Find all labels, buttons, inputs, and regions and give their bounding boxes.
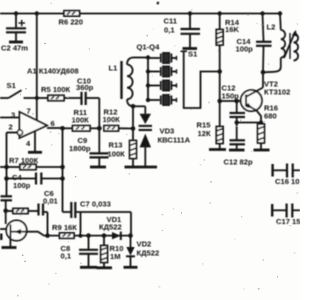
resistor R7	[7, 156, 63, 170]
ground bar of C8	[80, 266, 97, 269]
resistor R5	[37, 85, 81, 101]
svg-text:7: 7	[27, 107, 31, 116]
svg-text:L1: L1	[109, 64, 119, 73]
ground bar of C2	[9, 41, 23, 44]
varicap VD3 (dual)	[139, 106, 191, 166]
wire: pin 4 to ground	[34, 131, 36, 152]
node: bus right corner	[128, 233, 133, 238]
svg-text:360p: 360p	[76, 83, 94, 92]
node: rail-R14 junction	[218, 11, 222, 15]
node: C8 junction	[86, 233, 91, 238]
node: bus tap 2	[146, 69, 150, 73]
svg-text:VD3: VD3	[160, 127, 175, 136]
capacitor C16 (fragment)	[273, 164, 300, 187]
ground bar of R13/VD3	[125, 166, 158, 169]
capacitor C11	[164, 14, 201, 48]
svg-text:C12 82р: C12 82р	[224, 158, 253, 167]
svg-text:1800p: 1800p	[69, 144, 91, 153]
wire: R13 column	[132, 106, 134, 140]
wire: stub to left edge at R7 row	[0, 166, 7, 168]
capacitor C17 (fragment)	[272, 204, 301, 227]
diode VD2	[126, 236, 159, 266]
capacitor C3 (left edge, series in column)	[1, 196, 13, 210]
ground bar of R10	[97, 266, 113, 269]
node: bus top	[146, 55, 150, 59]
node: bus bottom	[146, 98, 150, 102]
node: rail-C14 junction	[260, 11, 264, 15]
node: tank bottom node	[261, 70, 266, 75]
svg-text:R7 100К: R7 100К	[9, 156, 38, 165]
node: emitter/midpoint junction	[259, 120, 263, 124]
wire: C6 down to lower bus	[47, 212, 49, 236]
wire: inverting column x6.5	[6, 133, 8, 197]
ground bar of R16	[254, 149, 270, 152]
crystal Q3	[148, 80, 177, 90]
wire: pin 2 input	[7, 132, 18, 134]
svg-text:100p: 100p	[236, 45, 254, 54]
trimmer arrow through L2/L3	[284, 30, 298, 58]
resistor R8	[6, 208, 39, 213]
wire: base feed	[220, 100, 246, 102]
capacitor C4	[7, 173, 63, 191]
resistor R9	[52, 223, 77, 238]
node: R10 junction	[102, 233, 107, 238]
transistor VT2	[241, 80, 291, 112]
core line between L2 and L3	[289, 33, 291, 59]
wire: crystal left bus	[147, 58, 149, 101]
node: C4 right junction	[60, 176, 65, 181]
inductor L3 (cut at edge)	[294, 34, 299, 61]
resistor R13	[108, 141, 137, 167]
svg-text:КТ3102: КТ3102	[264, 88, 290, 97]
switch S1 (wafer)	[181, 50, 199, 59]
svg-text:C7 0,033: C7 0,033	[80, 200, 111, 209]
capacitor C6	[39, 189, 59, 216]
pin 2 inversion bubble	[17, 130, 22, 135]
op-amp U1	[9, 107, 55, 149]
svg-text:100К: 100К	[103, 115, 121, 124]
node: R11/R12/C9 junction	[97, 126, 102, 131]
svg-text:R9 16К: R9 16К	[52, 223, 77, 232]
resistor R14	[216, 14, 239, 127]
svg-text:S1: S1	[7, 81, 17, 90]
svg-text:680: 680	[264, 112, 277, 121]
ground bar of VD2	[124, 266, 138, 269]
node: C12 divider junction	[234, 99, 239, 104]
wire: C10 to R11/R12 node	[98, 98, 100, 129]
capacitor C12 (82p, lower divider)	[224, 123, 253, 167]
svg-text:100К: 100К	[108, 150, 126, 159]
capacitor C13 (150p, upper divider)	[222, 84, 246, 123]
svg-text:R13: R13	[109, 141, 123, 150]
inductor L2	[263, 14, 285, 73]
wire: emitter drop	[257, 111, 262, 125]
svg-text:VD2: VD2	[137, 240, 152, 249]
node: R8 left junction	[3, 209, 8, 214]
ground bar of R15	[209, 148, 226, 151]
node: R7 left junction	[4, 165, 9, 170]
inductor L1	[109, 58, 134, 107]
node: divider midpoint	[235, 120, 239, 124]
svg-text:6: 6	[51, 119, 55, 128]
svg-text:R6 220: R6 220	[59, 18, 84, 27]
node: output junction	[60, 126, 65, 131]
resistor R11	[63, 108, 100, 131]
resistor R10	[101, 236, 124, 267]
svg-text:2: 2	[9, 123, 13, 132]
transistor VT1 (JFET)	[0, 220, 27, 246]
node: C6/VT1 bus junction	[45, 233, 50, 238]
wire: S1 wiper bus	[184, 58, 220, 109]
svg-text:C16 10: C16 10	[275, 177, 300, 186]
capacitor C7	[63, 200, 132, 219]
capacitor C2	[1, 14, 28, 53]
svg-text:КВС111А: КВС111А	[158, 136, 191, 145]
wire: L1 bottom to VD3	[133, 105, 145, 107]
node: C4 left junction	[4, 176, 9, 181]
node: S1/R5/pin7 junction	[35, 96, 39, 100]
svg-text:100К: 100К	[72, 116, 90, 125]
node: rail-C2 junction	[14, 11, 18, 15]
switch S1	[0, 81, 37, 98]
crystal Q1	[148, 53, 177, 63]
svg-text:КД522: КД522	[99, 223, 122, 232]
diode VD1	[99, 215, 122, 240]
wire: VT1 to lower bus	[27, 232, 48, 236]
node: R7 right junction	[60, 165, 65, 170]
svg-text:C2 47m: C2 47m	[1, 44, 28, 53]
resistor R12	[103, 108, 134, 132]
wire: top supply rail	[0, 13, 281, 15]
svg-text:C17 15: C17 15	[276, 217, 300, 226]
svg-text:0,1: 0,1	[61, 252, 72, 261]
svg-text:0,1: 0,1	[164, 26, 175, 35]
wire: collector to tank node	[262, 73, 264, 88]
svg-text:R5 100К: R5 100К	[41, 85, 70, 94]
svg-text:S1: S1	[188, 50, 198, 59]
svg-text:16K: 16K	[225, 25, 239, 34]
node: rail-C11 junction	[188, 11, 192, 15]
resistor R15	[197, 121, 224, 149]
svg-text:А1 К140УД608: А1 К140УД608	[27, 67, 79, 76]
resistor R6	[59, 11, 84, 27]
wire: feedback column x62.5	[62, 128, 64, 212]
ground bar of pin 4	[28, 151, 42, 154]
wire: C7 branch down to bus	[80, 212, 82, 236]
node: R12/VD3 column junction	[131, 126, 136, 131]
svg-text:100p: 100p	[13, 181, 31, 190]
svg-text:1М: 1М	[110, 252, 121, 261]
node: C7 branch junction	[78, 234, 82, 238]
wire: right side of loop down	[130, 212, 132, 236]
capacitor C10	[76, 77, 99, 106]
crystal Q4	[148, 95, 177, 105]
svg-text:КД522: КД522	[137, 249, 160, 258]
wire: lower bus	[48, 235, 131, 237]
svg-text:4: 4	[26, 139, 31, 148]
wire: pin7 supply drop	[36, 14, 38, 121]
ground bar of VT1 source	[2, 246, 17, 249]
capacitor C8	[61, 236, 99, 266]
svg-text:0,01: 0,01	[43, 197, 59, 206]
ground bar of C11	[183, 47, 198, 50]
wire: drain drop to VT1	[5, 211, 7, 224]
svg-text:L2: L2	[267, 23, 276, 32]
speck near top	[156, 1, 159, 4]
node: base wire junction	[217, 99, 222, 104]
capacitor C9	[69, 128, 109, 166]
wire: L1 top to crystal bus	[133, 57, 148, 59]
node: L1 bottom / R13 column junction	[131, 104, 136, 109]
node: rail-L2 junction	[278, 11, 282, 15]
wire: midpoint to emitter	[237, 122, 261, 124]
svg-text:Q1-Q4: Q1-Q4	[137, 43, 161, 52]
svg-text:150p: 150p	[222, 92, 240, 101]
node: rail-pin7 junction	[35, 11, 39, 15]
wire: op-amp output	[47, 127, 63, 129]
cut-off label mark at left edge	[0, 234, 3, 241]
resistor R16	[258, 104, 278, 150]
capacitor C14	[236, 14, 272, 73]
ground bar of C12	[229, 149, 245, 152]
node: S1 bus / R14 junction	[217, 69, 222, 74]
ground bar of C9	[90, 166, 106, 169]
crystal Q2	[148, 66, 177, 76]
node: bus tap 3	[146, 83, 150, 87]
wire: pin 3 input	[0, 117, 20, 119]
svg-text:12К: 12К	[198, 129, 211, 138]
svg-text:C11: C11	[164, 17, 178, 26]
